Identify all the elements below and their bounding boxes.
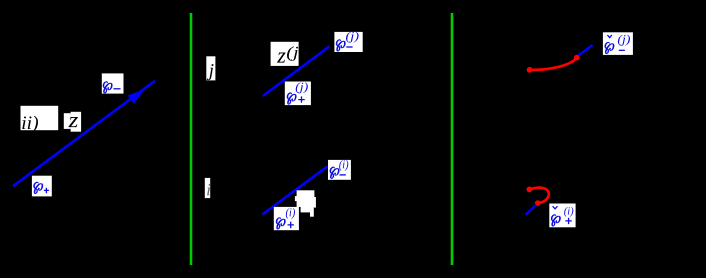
- label wp-minus^(j) glyph: [336, 39, 345, 51]
- label wp-plus^(i) subscript plus: [288, 222, 294, 228]
- label i text: [207, 184, 210, 195]
- label z^(j) superscript (j clipped: [287, 46, 298, 61]
- label wp-check-plus^(i) box: [549, 204, 575, 228]
- label wp-plus^(j) glyph: [287, 93, 296, 105]
- label wp-check-plus^(i) glyph: [551, 214, 560, 226]
- label wp-check-minus^(j) box: [603, 32, 633, 55]
- label wp-check-plus^(i) superscript (i): [564, 207, 573, 217]
- label ii) text: [22, 116, 38, 133]
- label wp-plus^(j) box: [285, 82, 311, 106]
- branch point dot bottom-left: [527, 187, 533, 193]
- label z box right part: [71, 112, 82, 132]
- label j text: [207, 64, 214, 80]
- label wp-minus^(i) superscript (i): [339, 160, 348, 171]
- label j box: [206, 56, 215, 80]
- label wp-plus subscript plus: [44, 188, 49, 194]
- branch point dot bottom-right: [535, 200, 541, 206]
- deformed contour (red) bottom: [529, 188, 548, 203]
- label wp-check-minus^(j) superscript (j): [618, 35, 630, 46]
- label z^(j) text z: [277, 53, 286, 63]
- label wp-plus glyph: [33, 182, 42, 194]
- branch cut line (green) left: [190, 13, 193, 265]
- label wp-minus^(i) glyph: [330, 167, 339, 179]
- label wp-check-minus^(j) subscript minus: [619, 49, 625, 51]
- label wp-minus^(j) subscript minus: [346, 46, 352, 48]
- blanked label z^(i) white blob: [295, 190, 316, 216]
- label z box left part: [64, 113, 71, 129]
- label wp-plus^(i) glyph: [276, 217, 285, 229]
- label wp-minus^(i) box: [328, 160, 351, 180]
- label ii) box: [21, 106, 59, 130]
- label wp-plus^(i) box: [274, 207, 299, 230]
- label wp-check-minus^(j) caron: [607, 35, 612, 38]
- label wp-minus^(j) superscript (j): [346, 32, 359, 43]
- panel ii): contour line z (blue): [13, 81, 155, 186]
- label wp-check-plus^(i) caron: [553, 206, 558, 209]
- label wp-minus glyph: [103, 81, 112, 93]
- branch cut line (green) right: [451, 13, 454, 265]
- label wp-check-plus^(i) subscript plus: [565, 218, 571, 224]
- label wp-minus box: [102, 73, 124, 93]
- contour stub (blue) top: [579, 45, 593, 56]
- label wp-minus subscript minus: [114, 88, 121, 90]
- label z^(j) box: [271, 42, 299, 66]
- label wp-plus box: [32, 176, 52, 197]
- label wp-plus^(j) superscript (j): [296, 82, 308, 93]
- deformed contour (red) top: [530, 58, 577, 70]
- label wp-plus^(j) subscript plus: [298, 96, 304, 102]
- panel i: contour segment (blue): [262, 166, 327, 214]
- branch point dot top-left: [527, 67, 533, 73]
- label wp-minus^(i) subscript minus: [340, 174, 346, 176]
- branch point dot top-right: [574, 55, 580, 61]
- panel j: contour segment (blue): [263, 46, 330, 96]
- contour stub (blue) bottom: [526, 205, 537, 215]
- label wp-minus^(j) box: [334, 32, 362, 52]
- label z text: [68, 117, 78, 127]
- label i box: [205, 178, 210, 198]
- label wp-plus^(i) superscript (i): [286, 208, 295, 219]
- label wp-check-minus^(j) glyph: [605, 42, 614, 54]
- arrowhead on contour: [128, 89, 145, 104]
